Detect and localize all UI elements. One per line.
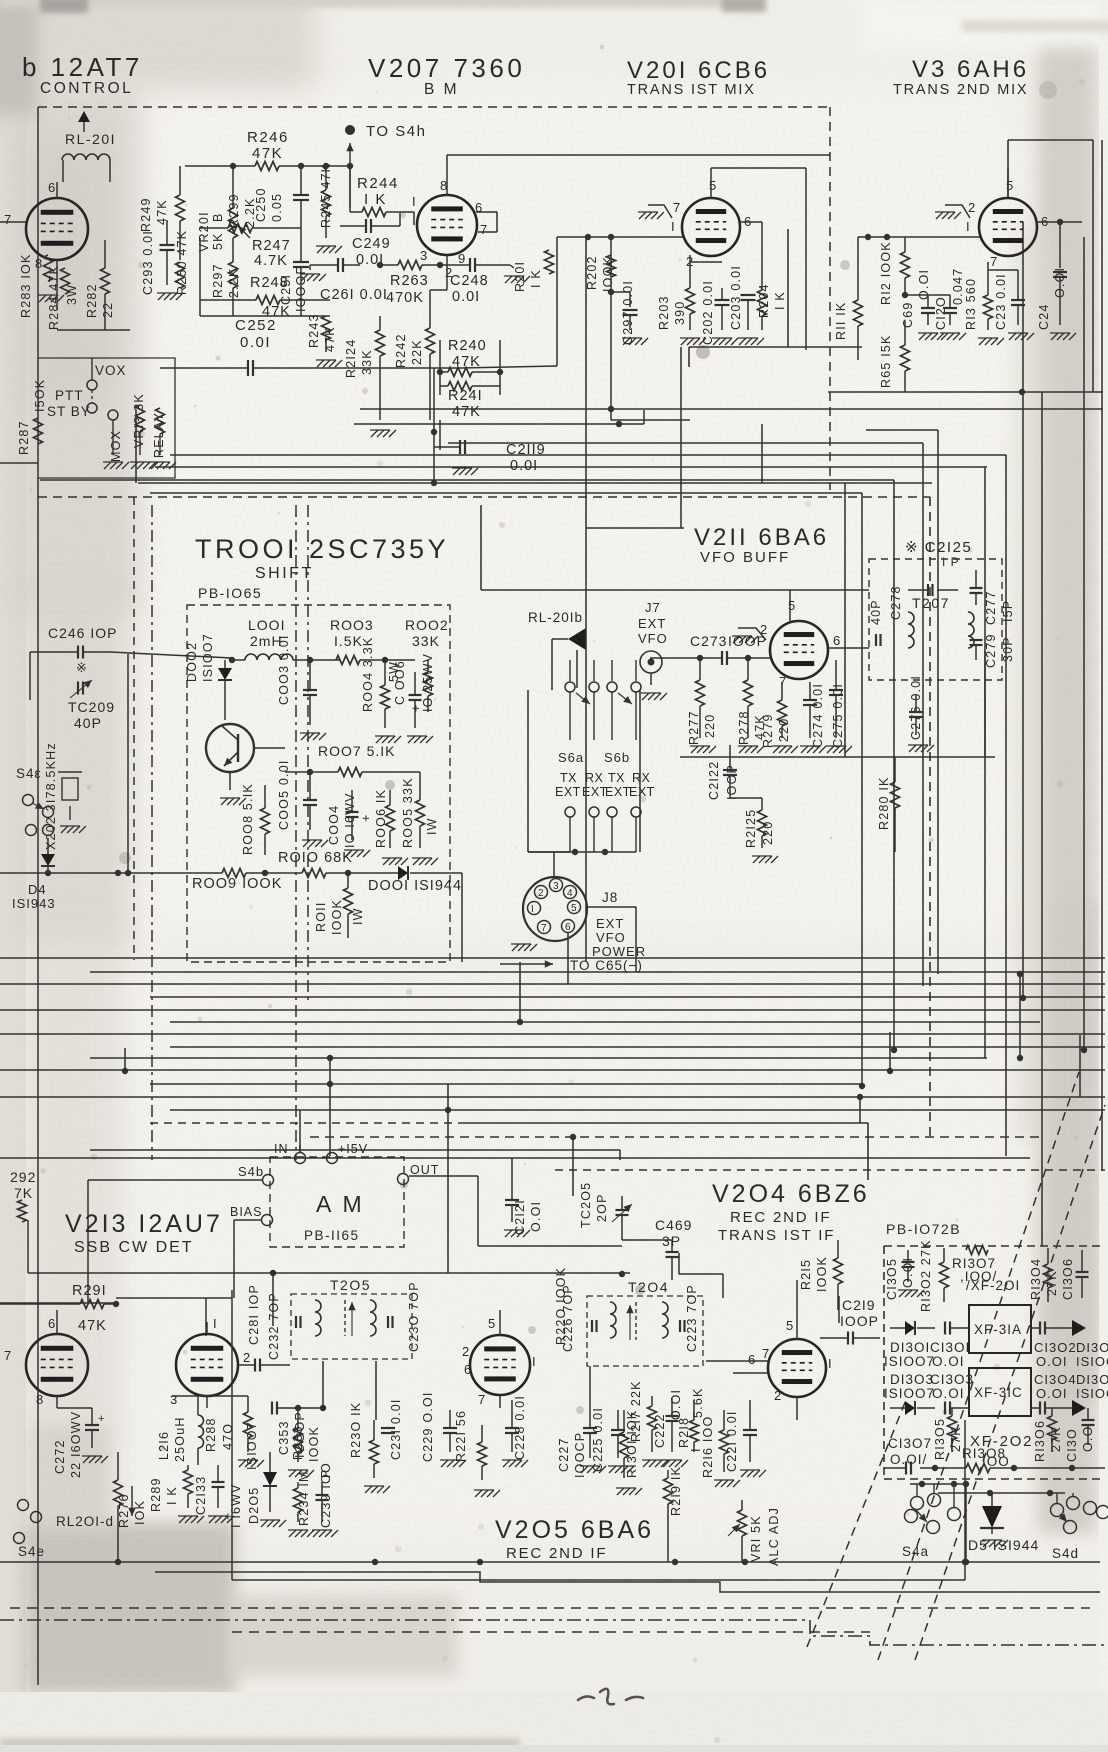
wire bus xyxy=(150,996,1105,998)
ground xyxy=(609,1466,616,1473)
wire bus xyxy=(0,957,1105,959)
wire emitter to ground xyxy=(229,772,231,790)
dashed divider 3 xyxy=(151,505,153,1160)
junction xyxy=(327,1055,333,1061)
ground xyxy=(801,746,808,753)
wire IN riser xyxy=(299,1110,301,1152)
diode D002 symbol xyxy=(218,668,232,680)
wire xyxy=(569,817,571,852)
wire xyxy=(622,1239,672,1241)
wire xyxy=(585,237,587,962)
tube V201 (6CB6) xyxy=(682,198,740,256)
socket J8 xyxy=(523,877,587,941)
wire right bus vertical xyxy=(1005,455,1007,1156)
wire V201 box xyxy=(689,346,862,348)
wire mid column vertical xyxy=(461,873,463,962)
wire tube V207 pin1 xyxy=(413,212,415,225)
handwritten page number -2- xyxy=(578,1689,643,1705)
wire xyxy=(0,1302,115,1304)
ground xyxy=(773,746,780,753)
wire xyxy=(206,1396,208,1408)
ground xyxy=(365,1486,372,1493)
wire bus xyxy=(170,1046,1105,1048)
wire xyxy=(448,442,923,444)
wire xyxy=(557,236,684,238)
transistor TR001 (2SC735Y) xyxy=(206,724,254,772)
wire xyxy=(796,1398,798,1420)
wire bus xyxy=(0,1033,1105,1035)
ground xyxy=(441,1460,448,1467)
ground xyxy=(753,856,760,863)
ground xyxy=(383,858,390,865)
dashed module box PB-1065 xyxy=(187,605,450,962)
wire bus xyxy=(170,1021,1040,1023)
junction xyxy=(347,163,353,169)
junction xyxy=(122,1068,128,1074)
wire bus xyxy=(0,1009,1105,1011)
wire switch box xyxy=(38,358,175,478)
ground xyxy=(376,736,383,743)
wire V205 box left xyxy=(231,1290,233,1580)
junction xyxy=(887,1068,893,1074)
tube V205a xyxy=(470,1335,530,1395)
ground xyxy=(739,338,746,345)
wire C219 row xyxy=(853,1337,880,1339)
tube V213a (12AT7) top-left xyxy=(26,198,88,260)
wire xyxy=(844,483,846,757)
wire xyxy=(569,692,571,740)
wire xyxy=(329,1058,331,1156)
wire V205 box bottom xyxy=(232,1579,965,1581)
wire bus dashed xyxy=(310,1136,1042,1138)
wire bus xyxy=(90,971,1105,973)
wire right bus vertical xyxy=(893,480,895,1050)
wire top mid vertical xyxy=(349,166,351,212)
wire tube V207 bottom leads xyxy=(446,255,448,290)
wire plate xyxy=(710,168,712,198)
tube V204 (6BZ6) xyxy=(768,1339,826,1397)
wire bus xyxy=(170,1109,1105,1111)
junction xyxy=(859,1083,865,1089)
arrow TO S4h xyxy=(345,125,355,135)
wire xyxy=(322,1361,324,1408)
wire grid lead and ground xyxy=(945,205,970,218)
wire xyxy=(160,367,248,369)
ground xyxy=(179,1516,186,1523)
ground xyxy=(1051,333,1058,340)
wire corner xyxy=(867,1123,869,1180)
dashed diagonal 3 xyxy=(807,1400,906,1647)
wire xyxy=(104,240,106,268)
wire right bus vertical xyxy=(922,443,924,986)
wire xyxy=(150,492,862,494)
diode D4 1S1943 xyxy=(41,854,55,866)
wire bus low xyxy=(0,1157,1030,1159)
dashed divider xyxy=(295,505,297,1160)
junction xyxy=(377,262,383,268)
wire xyxy=(481,589,790,591)
ground xyxy=(581,1466,588,1473)
wire xyxy=(29,652,31,700)
ground xyxy=(313,1530,320,1537)
wire xyxy=(0,872,200,874)
wire xyxy=(1079,1035,1081,1097)
wire xyxy=(1041,1050,1043,1246)
wire xyxy=(572,1137,574,1196)
wire bus xyxy=(90,1149,620,1151)
wire xyxy=(232,166,234,208)
wire xyxy=(796,1280,798,1340)
ground xyxy=(691,746,698,753)
wire xyxy=(299,1145,301,1152)
wire long under control section xyxy=(138,482,932,484)
wire xyxy=(1019,974,1021,1058)
junction xyxy=(327,1081,333,1087)
ground xyxy=(715,1480,722,1487)
wire bus xyxy=(0,1069,1105,1071)
ground xyxy=(1009,333,1016,340)
wire xyxy=(224,700,226,720)
wire xyxy=(40,479,894,481)
wire xyxy=(56,1396,58,1408)
ground xyxy=(413,858,420,865)
junction xyxy=(517,1019,523,1025)
wire pin1 row xyxy=(858,236,980,238)
wire xyxy=(790,589,869,591)
wire grid lead and ground xyxy=(738,628,766,640)
ground xyxy=(104,462,111,469)
tube V213 (12AU7) left half xyxy=(26,1334,88,1396)
wire xyxy=(838,1296,840,1323)
junction xyxy=(230,163,236,169)
ground xyxy=(317,246,324,253)
resistor R1304 zigzag xyxy=(1044,1264,1053,1288)
junction xyxy=(857,1094,863,1100)
junction xyxy=(570,1134,576,1140)
wire right bus vertical xyxy=(1041,392,1043,1050)
wire xyxy=(56,182,58,198)
ground xyxy=(681,338,688,345)
ground xyxy=(733,636,740,643)
wire grid lead and ground xyxy=(648,205,672,218)
tube V211 (6BA6) xyxy=(770,621,828,679)
ground xyxy=(505,1230,512,1237)
wire xyxy=(62,160,64,182)
ground xyxy=(221,798,228,805)
ground xyxy=(713,338,720,345)
wire right bus vertical xyxy=(1101,140,1103,1171)
ground xyxy=(83,1456,90,1463)
junction xyxy=(445,1107,451,1113)
ground xyxy=(919,333,926,340)
wire long mid xyxy=(360,408,1103,410)
wire pin6 xyxy=(740,221,762,223)
wire xyxy=(690,261,722,263)
ground xyxy=(317,360,324,367)
ground xyxy=(408,736,415,743)
wire xyxy=(916,1484,918,1497)
wire V3 plate xyxy=(1007,140,1009,198)
ground xyxy=(741,1470,748,1477)
tube V3 (6AH6) xyxy=(979,198,1037,256)
wire switch row xyxy=(910,1483,966,1485)
wire bus partial-dashed xyxy=(150,1122,460,1124)
dashed module box PB-1165 AM xyxy=(270,1157,404,1247)
ground xyxy=(642,693,649,700)
wire xyxy=(200,315,330,317)
dashed border vertical right xyxy=(929,497,931,1137)
wire xyxy=(460,872,462,874)
ground xyxy=(643,1460,650,1467)
wire xyxy=(124,1048,126,1071)
wire pin6 xyxy=(1036,221,1082,223)
wire plate xyxy=(1007,168,1009,198)
dashed SHIFT border left xyxy=(133,497,135,960)
junction xyxy=(45,870,51,876)
wire xyxy=(0,462,38,464)
ground xyxy=(303,840,310,847)
wire xyxy=(499,1310,501,1335)
ground xyxy=(623,338,630,345)
ground xyxy=(61,826,68,833)
ground xyxy=(345,850,352,857)
ground xyxy=(239,1460,246,1467)
wire xyxy=(440,371,448,373)
wire xyxy=(667,1470,669,1478)
wire bottom staircase xyxy=(155,1572,1100,1592)
ground xyxy=(909,745,916,752)
wire V205 box right xyxy=(964,1420,966,1580)
wire right bus vertical xyxy=(1022,222,1024,998)
filter XF-31A box xyxy=(969,1305,1031,1353)
wire V207 pin6 pin7 xyxy=(476,211,497,213)
dashed bus low xyxy=(555,1169,1105,1171)
ground xyxy=(505,276,512,283)
wire xyxy=(586,527,684,529)
dashed control-section boundary top xyxy=(38,106,830,108)
junction xyxy=(902,292,908,298)
wire xyxy=(859,1097,861,1123)
resistor R292 zigzag xyxy=(18,1200,27,1222)
filter XF-31C box xyxy=(969,1368,1031,1416)
ground xyxy=(453,468,460,475)
wire right bus vertical xyxy=(861,493,863,1086)
wire xyxy=(619,1150,621,1160)
wire right bus vertical xyxy=(937,430,939,974)
wire plate xyxy=(789,590,791,622)
capacitor C2125 top xyxy=(927,584,929,596)
junction xyxy=(1017,1055,1023,1061)
wire bus xyxy=(0,983,1105,985)
wire RL-201b lead xyxy=(576,650,578,688)
ground xyxy=(289,1470,296,1477)
wire xyxy=(984,467,986,1058)
capacitor C278 xyxy=(875,634,877,646)
wire xyxy=(480,505,482,590)
resistor R1305 zigzag xyxy=(948,1416,957,1440)
tube V207 (7360) xyxy=(417,195,477,255)
junction xyxy=(585,234,591,240)
ground xyxy=(899,1290,906,1297)
wire xyxy=(433,368,435,432)
ground xyxy=(371,430,378,437)
wire xyxy=(889,1032,891,1071)
page left border xyxy=(37,107,39,1685)
wire bottom dashed 2 xyxy=(232,1631,870,1633)
wire bottom bus xyxy=(0,1561,1100,1563)
junction xyxy=(229,657,235,663)
wire bottom dashdot xyxy=(0,1620,1105,1645)
dashed diagonal xyxy=(878,1072,1079,1660)
dashed divider 2 xyxy=(307,505,309,1000)
wire xyxy=(446,155,448,196)
tube V213 (12AU7) right half xyxy=(176,1334,238,1396)
wire C246 to L001 xyxy=(110,652,232,658)
ground xyxy=(512,944,519,951)
wire xyxy=(984,650,986,757)
dashed control border bottom xyxy=(38,496,930,498)
wire xyxy=(56,1310,58,1334)
junction xyxy=(1017,971,1023,977)
dashed diagonal 2 xyxy=(915,1105,1105,1660)
ground xyxy=(209,1516,216,1523)
wire xyxy=(866,429,938,431)
wire long mid 2 xyxy=(828,391,1103,393)
wire xyxy=(447,1110,449,1273)
wire S6 switch enclosure xyxy=(527,690,529,852)
ground xyxy=(617,1488,624,1495)
ground xyxy=(983,1540,990,1547)
dashed module boundary PB-1072B xyxy=(883,1246,885,1479)
wire xyxy=(499,1396,501,1408)
wire right bus vertical xyxy=(1083,237,1085,1050)
wire bus xyxy=(0,1096,1105,1098)
wire xyxy=(170,454,1006,456)
ground xyxy=(158,293,165,300)
ground xyxy=(663,1460,670,1467)
junction xyxy=(437,369,443,375)
ground xyxy=(301,733,308,740)
ground xyxy=(739,746,746,753)
ground xyxy=(301,274,308,281)
wire xyxy=(447,1084,449,1110)
wire R202 vertical xyxy=(610,237,612,292)
wire xyxy=(837,1300,839,1310)
wire pin6 V211 to T207 xyxy=(828,647,869,649)
wire bus xyxy=(90,1057,987,1059)
wire xyxy=(519,962,521,1022)
wire xyxy=(199,238,201,316)
ground xyxy=(979,338,986,345)
wire TO C65 xyxy=(500,963,553,965)
transformer T207 in dashed box xyxy=(869,559,1002,680)
wire bottom dashed 1 xyxy=(10,1607,1090,1609)
wire J8 pin6 down xyxy=(567,933,569,984)
dashed control-section boundary right xyxy=(829,107,831,490)
wire long xyxy=(680,756,995,758)
wire xyxy=(155,466,987,468)
ground xyxy=(827,746,834,753)
ground xyxy=(289,1530,296,1537)
ground xyxy=(475,1490,482,1497)
ground xyxy=(503,1460,510,1467)
ground xyxy=(261,1520,268,1527)
ground xyxy=(941,333,948,340)
ground xyxy=(39,295,46,302)
wire bus xyxy=(150,1083,862,1085)
